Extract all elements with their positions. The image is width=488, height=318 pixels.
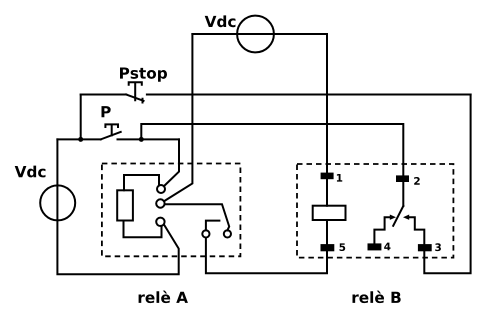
relay B terminal 1 (321, 173, 334, 180)
junction dot right (139, 137, 144, 142)
wire right rail down to relay B terminal 3 (424, 95, 470, 274)
relay B terminal 3 (418, 244, 432, 251)
relay A pin circle 1 (coil top) (157, 185, 165, 193)
relay A pin circle 3 (coil bottom) (156, 218, 164, 226)
relay B terminal 5 (321, 244, 335, 251)
wire from P right contact down to relay A coil top pin (164, 139, 179, 186)
junction dot left (78, 137, 83, 142)
label pin 3 (435, 243, 441, 251)
label pin 2 (414, 177, 420, 185)
wire branch from P right contact up and over to relay B terminal 2 (141, 124, 403, 206)
relay B enclosure (dashed) (297, 164, 453, 258)
label rele B (353, 291, 401, 303)
label pin 1 (337, 174, 342, 182)
wire from P left down through left source to bottom rail and relay A coil bottom pin (57, 139, 178, 274)
relay A coil (117, 190, 133, 220)
voltage source Vdc left (40, 185, 75, 220)
relay A contact right pin circle (224, 230, 231, 237)
relay A pin circle 2 (common) (156, 199, 164, 207)
wire relay B coil bottom to terminal 5 (326, 220, 328, 251)
wire relay A coil bottom loop (124, 221, 162, 238)
arrowhead right contact (403, 215, 409, 220)
relay B switch blade from terminal 2 (393, 206, 403, 226)
relay A contact left pin circle (202, 230, 209, 237)
label rele A (139, 291, 188, 303)
label Pstop (120, 67, 167, 81)
pushbutton P right contact wire (118, 138, 180, 140)
relay A enclosure (dashed) (102, 164, 241, 257)
pushbutton Pstop blade (126, 95, 143, 103)
wire top source left terminal down to relay A common pin (164, 34, 192, 201)
wire relay B terminal 4 to left contact (374, 217, 391, 243)
label Vdc (left supply) (15, 166, 46, 178)
pushbutton Pstop plunger (129, 82, 142, 100)
label pin 4 (384, 243, 390, 251)
wire from relay A contact left pin down along bottom to relay B terminal 5 (206, 238, 327, 274)
label P (102, 106, 111, 117)
label pin 5 (340, 243, 346, 251)
arrowhead left contact (390, 215, 396, 220)
label Vdc (top supply) (205, 15, 236, 27)
pushbutton Pstop left contact (81, 94, 127, 96)
relay B coil (313, 206, 346, 220)
wire relay B terminal 3 to right contact (408, 217, 424, 244)
wire relay A coil top loop (124, 175, 159, 190)
pushbutton Pstop right contact wire (147, 94, 471, 96)
wire top rail (192, 33, 327, 35)
relay B terminal 2 (396, 175, 409, 182)
wire top source right terminal down to relay B coil top (326, 34, 328, 206)
pushbutton P blade (101, 132, 121, 140)
wire from Pstop left contact down to P left contact (80, 95, 82, 140)
relay A open contact blade (206, 221, 220, 231)
relay B terminal 4 (368, 243, 382, 250)
pushbutton P left contact (57, 138, 100, 140)
wire from relay A common pin to contact right pin (165, 204, 230, 230)
voltage source Vdc top (237, 16, 274, 53)
pushbutton P plunger (105, 124, 118, 135)
